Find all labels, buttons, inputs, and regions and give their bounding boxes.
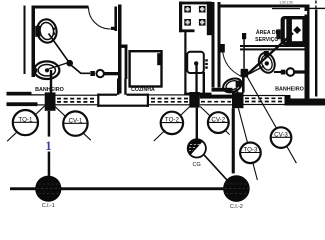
riser 3 (to CI2) [232, 108, 235, 173]
washer knob [293, 26, 301, 34]
sink 1 outer [34, 61, 59, 79]
burner 1 [184, 6, 191, 13]
wall kitchen right line b [218, 2, 221, 88]
kitchen sink taps [205, 59, 208, 61]
toilet 2 tank [236, 81, 242, 87]
wall left outer thin line [24, 6, 26, 75]
property line top right [310, 8, 325, 9]
tag CV-2 [208, 112, 229, 133]
pipe toilet2 [236, 89, 238, 94]
fridge handle [157, 53, 162, 65]
T junction stem right bar [124, 79, 126, 96]
washer door [292, 19, 303, 41]
lavatory 2 tap [264, 51, 269, 56]
tag TQ-3 [240, 143, 261, 164]
wall stub right of band [285, 95, 291, 106]
kitchen sink dot [194, 61, 198, 65]
tag CV-1 [63, 111, 87, 135]
wall kitchen left step [122, 45, 128, 48]
tag TQ-1 [13, 110, 38, 135]
wall mid thick between block1 and block2 [200, 95, 232, 99]
door 1 swing arc [89, 7, 111, 29]
wall bathroom2 right [305, 5, 310, 103]
valve 2 square [281, 70, 286, 75]
counter bottom edge [184, 93, 211, 96]
toilet 1 inner [39, 21, 55, 40]
kitchen sink basin [187, 52, 204, 73]
svg-text:TQ-3: TQ-3 [243, 147, 258, 154]
burner 3 [184, 19, 191, 26]
T junction box outline [97, 94, 117, 96]
svg-text:C.I.-2: C.I.-2 [230, 204, 243, 210]
band5 dashes [245, 97, 283, 99]
property line right [315, 10, 317, 97]
lavatory 2 inner [260, 54, 274, 71]
inspection chamber C.I.-2 [223, 175, 250, 202]
riser 2 (to CG) [196, 108, 198, 140]
toilet 2 inner [225, 79, 240, 92]
svg-text:ÁREA DE: ÁREA DE [256, 29, 280, 36]
service wall inner thin line [272, 8, 300, 9]
svg-text:1.30 1.50: 1.30 1.50 [279, 0, 293, 4]
toilet 2 outer [221, 76, 244, 95]
band5 top thin [244, 95, 285, 96]
svg-text:BANHEIRO: BANHEIRO [35, 87, 64, 93]
valve 1 circle [97, 70, 104, 77]
tag CV-3 [271, 127, 292, 148]
svg-text:CV-1: CV-1 [69, 117, 83, 124]
band4 bottom thin [200, 104, 232, 105]
lavatory 2 outer [256, 51, 277, 75]
washer slit [285, 19, 287, 42]
washer body [281, 16, 308, 45]
burner 4 [199, 19, 206, 26]
band bath1 top thin [32, 94, 45, 95]
toilet 1 outer [35, 18, 58, 44]
svg-text:TQ-1: TQ-1 [18, 116, 33, 123]
svg-text:CV-3: CV-3 [274, 131, 288, 138]
door 1 jamb [114, 7, 117, 32]
toilet 1 dots [53, 28, 56, 31]
toilet 1 tank [35, 26, 40, 37]
grease trap CG [188, 139, 206, 157]
pipe sink1 drain [50, 70, 52, 93]
wall top bathroom 1 [32, 6, 89, 9]
pipe kitchen sink drain [195, 65, 197, 93]
pipe washer drain [247, 33, 294, 75]
pipe lavatory2 to valve2 [274, 71, 281, 73]
block1 pipe crossing [189, 92, 199, 108]
wall bottom right [285, 99, 325, 106]
svg-text:CG: CG [192, 162, 200, 168]
pipe lavatory2 to drain box [249, 66, 264, 74]
wall notches [305, 11, 308, 15]
svg-text:COZINHA: COZINHA [131, 87, 155, 93]
band2 dashes [57, 98, 96, 100]
band3 top thin [149, 94, 190, 95]
band bath1 top thick [7, 92, 32, 96]
block2 pipe crossing [232, 92, 244, 108]
wall below service area (double) [240, 45, 306, 47]
counter left edge [184, 32, 186, 96]
washer tap [276, 29, 280, 39]
stove left [179, 2, 182, 33]
leader CV-1 [54, 106, 91, 140]
sink 1 inner [38, 65, 55, 76]
band3 bottom thin [149, 104, 190, 105]
stove right / wall [207, 2, 212, 36]
stove top [179, 2, 210, 5]
svg-text:SERVIÇO: SERVIÇO [255, 37, 278, 43]
band4 dash row [201, 101, 231, 103]
svg-text:CV-2: CV-2 [211, 117, 225, 124]
wall left (bathroom 1) [32, 6, 36, 78]
svg-text:1: 1 [45, 139, 51, 153]
valve 2 circle [287, 68, 295, 76]
pipe valve2 to wall [294, 70, 307, 73]
svg-text:BANHEIRO: BANHEIRO [275, 87, 304, 93]
band2 bottom thin [56, 104, 98, 105]
T junction box white fill [98, 95, 148, 106]
stove bottom [179, 29, 195, 32]
band bath1 bottom thick [7, 102, 38, 106]
junction dot 1 [66, 60, 73, 67]
T junction stem left bar [117, 79, 119, 96]
counter right edge [203, 72, 205, 95]
burner 2 [199, 6, 206, 13]
lavatory 2 dot [265, 61, 269, 65]
svg-text:TQ-2: TQ-2 [165, 117, 180, 124]
wall kitchen left [118, 5, 122, 94]
wall kitchen right line a [212, 2, 215, 88]
wall bathroom2 return [212, 88, 233, 92]
wall service area top [221, 5, 307, 8]
leader CV-3 [247, 77, 296, 163]
band5 bottom thin [244, 104, 285, 105]
door 2 swing arc [223, 50, 242, 77]
pipe junction to valve1 [72, 66, 91, 74]
leader TQ-2 [154, 107, 190, 142]
pipe drain box down [242, 77, 245, 93]
band2 top thin [56, 95, 98, 96]
svg-text:C.I.-1: C.I.-1 [42, 203, 55, 209]
fridge [130, 51, 162, 86]
inspection chamber C.I.-1 [35, 176, 61, 202]
riser 1 lower [48, 152, 51, 176]
wall kitchen left inner line [125, 46, 128, 79]
leader TQ-3 [238, 108, 257, 180]
door 2 hinge post [242, 33, 246, 39]
sink 1 tap [33, 68, 37, 72]
band bath1 bottom thin [38, 104, 45, 105]
property line right dashes top [315, 1, 316, 4]
main pipe line [10, 187, 224, 190]
door 2 jamb foot [219, 44, 225, 53]
pipe sink1 to junction [49, 63, 69, 70]
leader TQ-1 [7, 106, 45, 141]
pipe valve1 to wall [104, 72, 118, 75]
sink 1 dot [45, 68, 49, 72]
valve 1 square [90, 71, 95, 76]
riser 1 upper [48, 111, 51, 137]
door 2 leaf [243, 39, 245, 69]
pipe CG to CI2 [203, 154, 229, 182]
leader CV-2 [200, 107, 229, 135]
pipe toilet1 to junction [49, 34, 70, 64]
block0 pipe crossing [45, 92, 56, 110]
tag TQ-2 [161, 112, 183, 134]
floor drain box [241, 69, 249, 78]
band3 dashes [151, 98, 188, 100]
